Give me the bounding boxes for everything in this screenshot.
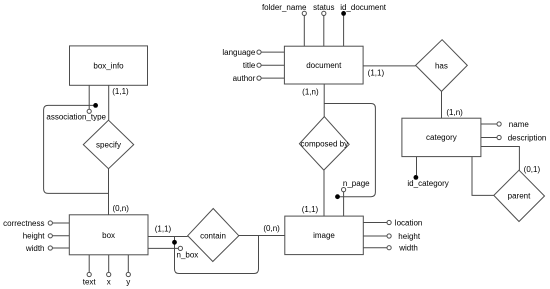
svg-text:contain: contain: [200, 232, 226, 241]
svg-text:n_box: n_box: [177, 251, 199, 260]
svg-text:has: has: [435, 61, 448, 70]
entity image: [285, 216, 364, 255]
svg-text:image: image: [313, 231, 335, 240]
svg-text:correctness: correctness: [3, 219, 44, 228]
attribute title of document: [261, 64, 284, 66]
wire category to parent (parent leg): [472, 157, 494, 196]
relationship specify: [83, 120, 133, 169]
attribute author of document: [261, 77, 284, 79]
attribute circle n_box: [178, 246, 182, 250]
attribute description of category: [481, 137, 497, 139]
attribute name of category: [481, 123, 497, 125]
relationship contain: [188, 209, 239, 262]
svg-text:text: text: [83, 277, 97, 286]
svg-text:category: category: [426, 133, 457, 142]
svg-text:width: width: [25, 244, 45, 253]
attribute location of image: [363, 222, 387, 224]
svg-text:description: description: [508, 133, 547, 142]
svg-text:parent: parent: [508, 192, 531, 201]
identifier dot at n_page: [335, 194, 340, 199]
attribute circle association_type: [87, 109, 91, 113]
attribute width of image: [363, 247, 387, 249]
svg-text:n_page: n_page: [343, 179, 370, 188]
svg-text:x: x: [107, 277, 111, 286]
wire box_info to specify: [108, 85, 110, 120]
wire document to composed by: [323, 84, 325, 117]
svg-text:(1,n): (1,n): [446, 108, 463, 117]
svg-text:id_category: id_category: [407, 179, 448, 188]
svg-text:id_document: id_document: [340, 3, 387, 12]
svg-text:(0,1): (0,1): [524, 165, 541, 174]
svg-text:status: status: [313, 3, 334, 12]
svg-text:composed by: composed by: [301, 139, 349, 148]
svg-text:title: title: [243, 61, 256, 70]
relationship has: [416, 40, 468, 92]
external identifier loop for box (n_box + contain): [175, 236, 259, 274]
external identifier loop for image (n_page + composed by): [324, 104, 375, 197]
svg-text:language: language: [222, 48, 255, 57]
attribute language of document: [261, 51, 284, 53]
attribute x of box: [108, 255, 110, 273]
attribute folder_name of document: [303, 16, 305, 47]
svg-text:height: height: [23, 232, 46, 241]
attribute width of box: [52, 247, 69, 249]
attribute id_category of category (identifier): [416, 157, 418, 175]
entity document: [284, 46, 363, 84]
svg-text:box_info: box_info: [93, 62, 124, 71]
attribute id_document of document (identifier): [343, 16, 345, 47]
entity category: [402, 118, 481, 156]
attribute n_page of image: [343, 192, 345, 216]
wire has to category: [441, 91, 443, 118]
entity box_info: [70, 46, 148, 85]
svg-text:height: height: [398, 232, 421, 241]
wire category to parent (child leg): [481, 147, 520, 171]
svg-text:box: box: [102, 231, 115, 240]
svg-text:location: location: [395, 218, 423, 227]
svg-text:(1,1): (1,1): [368, 69, 385, 78]
attribute status of document: [323, 16, 325, 47]
svg-text:name: name: [509, 120, 530, 129]
attribute correctness of box: [52, 222, 69, 224]
wire box_info to association_type attribute: [88, 85, 90, 109]
relationship composed by: [299, 117, 349, 171]
attribute height of image: [363, 235, 387, 237]
wire composed by to image: [323, 170, 325, 216]
svg-text:(1,1): (1,1): [155, 225, 172, 234]
wire specify to box: [108, 169, 110, 215]
svg-text:(0,n): (0,n): [112, 204, 129, 213]
identifier dot at association_type: [93, 103, 98, 108]
external identifier loop for box_info (association_type + specify): [44, 105, 109, 193]
attribute y of box: [127, 255, 129, 273]
svg-text:y: y: [126, 277, 130, 286]
identifier dot at n_box: [172, 240, 177, 245]
svg-text:specify: specify: [96, 140, 121, 149]
svg-text:author: author: [233, 74, 256, 83]
attribute text of box: [88, 255, 90, 273]
svg-text:(1,1): (1,1): [302, 205, 319, 214]
wire box to contain: [148, 236, 188, 238]
attribute height of box: [52, 235, 69, 237]
svg-text:folder_name: folder_name: [262, 3, 307, 12]
svg-text:association_type: association_type: [46, 113, 106, 122]
relationship parent: [494, 170, 545, 221]
svg-text:(0,n): (0,n): [263, 224, 280, 233]
svg-text:(1,1): (1,1): [112, 87, 129, 96]
svg-text:width: width: [398, 244, 418, 253]
svg-text:(1,n): (1,n): [302, 88, 319, 97]
wire contain to image: [239, 235, 285, 237]
entity box: [69, 215, 148, 255]
wire box to n_box attribute: [148, 247, 178, 249]
wire document to has: [363, 65, 416, 67]
svg-text:document: document: [306, 61, 342, 70]
